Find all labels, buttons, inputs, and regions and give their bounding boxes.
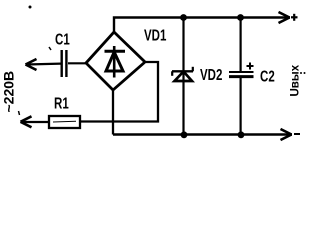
node bottom zener junction <box>181 131 188 138</box>
wire R1 to bridge right vertex <box>80 62 158 122</box>
node top C2 junction <box>237 14 244 21</box>
capacitor C1 <box>62 50 67 77</box>
node top zener junction <box>180 14 187 21</box>
plus polarity marker (top output) <box>291 14 298 21</box>
node bottom C2 junction <box>238 131 245 138</box>
svg-text:VD2: VD2 <box>200 65 223 83</box>
wire input to C1 with arrow <box>26 62 61 65</box>
zener diode VD2 <box>172 18 193 135</box>
bridge inner diode symbol <box>105 46 126 78</box>
wire C1 to bridge left vertex <box>68 62 87 64</box>
wire input to R1 with arrow <box>21 121 49 123</box>
svg-text:C1: C1 <box>55 30 70 48</box>
output arrow + (top right) <box>279 12 290 23</box>
resistor R1 <box>49 116 80 128</box>
svg-text:C2: C2 <box>260 67 275 85</box>
svg-text:Uвых: Uвых <box>290 64 302 96</box>
bridge rectifier VD1 diamond <box>86 32 145 90</box>
scan specks <box>29 6 32 9</box>
svg-text:~220В: ~220В <box>1 71 17 113</box>
wire bridge bottom vertex down to bottom rail <box>112 89 114 135</box>
wire top rail <box>114 18 290 33</box>
value mark inside R1 <box>53 120 76 123</box>
minus polarity marker (bottom output) <box>294 133 300 135</box>
capacitor C2 (polarized) <box>229 18 254 135</box>
svg-text:VD1: VD1 <box>144 26 167 44</box>
output arrow - (bottom right) <box>281 129 292 140</box>
C2 plus sign <box>247 63 254 70</box>
wire bottom rail <box>113 133 292 135</box>
svg-text:R1: R1 <box>54 94 69 112</box>
